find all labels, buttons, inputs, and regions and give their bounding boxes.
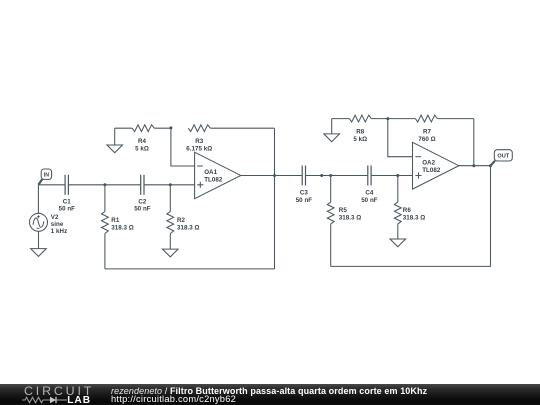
node E [329,174,332,177]
svg-text:TL082: TL082 [204,177,223,184]
svg-text:R3: R3 [195,138,204,145]
wire [105,268,275,270]
wire [459,165,491,167]
node H [472,164,475,167]
net flag OUT [491,150,513,166]
resistor R6 [394,176,425,240]
wire [388,119,413,157]
ground [390,239,406,247]
wire [144,184,195,186]
wire [274,128,276,269]
wire [473,119,475,166]
resistor R7 [388,115,474,143]
svg-text:sine: sine [51,221,64,228]
resistor R4 [115,125,171,153]
svg-text:R4: R4 [138,138,147,145]
net flag IN [38,169,51,185]
svg-text:OUT: OUT [497,154,509,160]
ground [107,128,123,153]
svg-text:TL082: TL082 [422,167,441,174]
wire [38,184,65,186]
resistor R5 [327,176,361,267]
svg-text:C4: C4 [365,189,374,196]
capacitor C4 [361,166,378,205]
svg-text:760 Ω: 760 Ω [418,136,435,143]
node OUT1 [273,174,276,177]
svg-text:5 kΩ: 5 kΩ [135,146,149,153]
wire [241,175,302,177]
node OUT2 [489,164,492,167]
svg-text:318.3 Ω: 318.3 Ω [403,215,426,222]
svg-text:R2: R2 [177,217,186,224]
op-amp OA1 [195,152,241,199]
capacitor C1 [59,175,76,213]
svg-text:C3: C3 [300,189,309,196]
footer bar [0,384,540,405]
resistor R8 [332,115,388,143]
node G [386,117,389,120]
op-amp OA2 [413,142,459,189]
CircuitLab logo [0,384,100,405]
ground [324,119,340,142]
svg-text:50 nF: 50 nF [134,206,151,213]
resistor R1 [102,185,134,269]
svg-text:5 kΩ: 5 kΩ [353,136,367,143]
svg-text:R1: R1 [111,217,120,224]
svg-text:318.3 Ω: 318.3 Ω [339,215,362,222]
capacitor C3 [296,166,313,205]
svg-text:OA1: OA1 [204,169,217,176]
resistor R2 [167,185,200,249]
node F [396,174,399,177]
svg-text:R8: R8 [356,129,365,136]
wire [371,175,412,177]
resistor R3 [186,125,274,153]
svg-text:OA2: OA2 [422,160,435,167]
svg-text:6.175 kΩ: 6.175 kΩ [186,146,212,153]
svg-text:C1: C1 [63,198,72,205]
svg-text:50 nF: 50 nF [361,197,378,204]
ground [163,249,179,257]
svg-text:R6: R6 [403,207,412,214]
svg-text:R7: R7 [423,129,432,136]
svg-text:C2: C2 [138,198,147,205]
node A [103,183,106,186]
wire [331,166,491,267]
node C [169,126,172,129]
svg-text:318.3 Ω: 318.3 Ω [111,225,134,232]
svg-text:50 nF: 50 nF [59,205,76,212]
capacitor C2 [134,175,151,213]
svg-text:V2: V2 [51,214,59,221]
svg-text:1 kHz: 1 kHz [51,228,67,235]
svg-text:IN: IN [44,172,49,178]
wire [68,184,140,186]
svg-text:318.3 Ω: 318.3 Ω [177,225,200,232]
svg-text:R5: R5 [339,207,348,214]
node D [320,174,323,177]
voltage source V2 [30,185,68,249]
node B [169,183,172,186]
credit text [111,387,540,404]
svg-text:LAB: LAB [67,395,91,405]
wire [306,175,368,177]
ground [31,249,47,257]
svg-text:50 nF: 50 nF [296,197,313,204]
wire [171,128,195,166]
